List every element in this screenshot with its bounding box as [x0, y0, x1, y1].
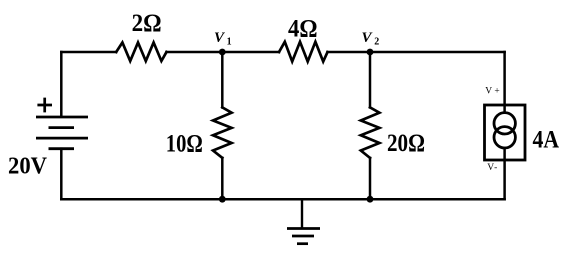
wire node V2 down to resistor R4 — [369, 52, 372, 107]
battery plate long top — [36, 116, 88, 119]
wire from R1 to node V1 and on to resistor R2 — [167, 51, 280, 54]
junction dot bottom of R3 — [219, 196, 226, 203]
wire left side top (battery to top bus) — [60, 52, 63, 116]
wire left side bottom (battery to bottom bus) — [60, 149, 63, 200]
svg-text:1: 1 — [227, 37, 232, 48]
current source circle lower — [494, 127, 515, 148]
wire from R2 through node V2 to top-right corner — [328, 51, 505, 54]
wire resistor R3 to bottom bus — [221, 158, 224, 199]
current source I1 4A box — [485, 105, 526, 160]
ground bar short — [297, 242, 308, 245]
svg-text:20Ω: 20Ω — [387, 130, 425, 157]
svg-text:V+: V+ — [485, 87, 502, 97]
svg-text:4Ω: 4Ω — [288, 15, 318, 42]
wire right side down to current source — [503, 52, 506, 113]
svg-text:20V: 20V — [8, 153, 48, 179]
wire top-left from battery to resistor R1 — [61, 51, 116, 54]
junction dot bottom of R4 — [367, 196, 374, 203]
node V2 junction dot — [367, 49, 374, 56]
svg-text:2Ω: 2Ω — [132, 10, 162, 37]
wire node V1 down to resistor R3 — [221, 52, 224, 107]
battery plate short — [49, 126, 75, 129]
svg-text:V-: V- — [487, 163, 498, 173]
resistor R3 10-ohm zigzag — [213, 107, 232, 157]
resistor R1 2-ohm zigzag — [116, 43, 166, 62]
svg-text:10Ω: 10Ω — [166, 130, 203, 157]
node V1 junction dot — [219, 49, 226, 56]
battery plus sign — [37, 98, 52, 113]
wire resistor R4 to bottom bus — [369, 158, 372, 199]
current source circle upper — [494, 113, 515, 134]
svg-text:2: 2 — [374, 37, 379, 48]
wire below current source to bottom bus — [503, 148, 506, 199]
ground bar middle — [292, 235, 314, 238]
wire bottom bus — [61, 198, 504, 201]
battery plate short bottom — [49, 147, 75, 150]
resistor R2 4-ohm zigzag — [279, 42, 328, 62]
resistor R4 20-ohm zigzag — [361, 107, 380, 157]
battery B1 20V — [36, 98, 88, 149]
battery plate long — [36, 137, 88, 140]
ground symbol — [287, 199, 320, 244]
svg-text:4A: 4A — [533, 127, 560, 154]
ground stem wire — [301, 199, 303, 228]
ground bar long — [287, 227, 320, 230]
